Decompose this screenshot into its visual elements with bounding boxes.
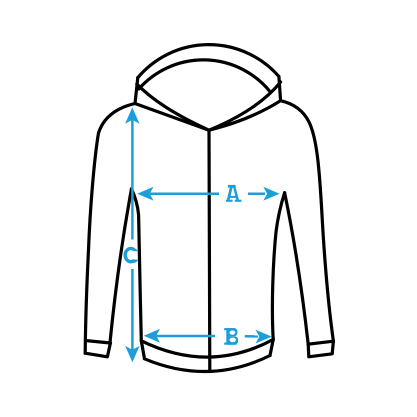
arrow B right head: [256, 330, 272, 344]
arrow B shaft left: [156, 335, 215, 338]
left body seam and hem left edge: [132, 189, 145, 359]
arrow C top head: [125, 107, 139, 123]
zipper: [207, 130, 211, 371]
label C: [125, 248, 138, 263]
right shoulder and sleeve outer edge: [281, 101, 334, 342]
hood inner arc: [139, 60, 271, 92]
arrow A shaft left: [150, 192, 219, 195]
hood right edge: [279, 77, 281, 101]
arrow C shaft upper: [131, 120, 134, 240]
left cuff: [85, 343, 110, 357]
right wrist line: [308, 341, 333, 344]
hood outer arc: [138, 45, 279, 78]
arrow C bottom head: [125, 346, 139, 362]
arrow A right head: [263, 187, 279, 201]
arrow B left head: [144, 329, 160, 343]
arrow B shaft right: [245, 335, 258, 338]
hood left edge: [135, 78, 138, 104]
arrow A left head: [137, 187, 153, 201]
left sleeve inner edge: [110, 189, 132, 343]
left wrist line: [86, 341, 110, 343]
hood left drape upper: [137, 84, 209, 130]
hood left drape lower: [135, 104, 209, 131]
hood right drape lower: [209, 101, 281, 131]
arrow C shaft lower: [131, 269, 134, 350]
hem right edge: [270, 340, 273, 356]
right body seam: [272, 193, 284, 340]
right sleeve inner edge: [285, 193, 309, 345]
hood right drape upper: [209, 82, 281, 130]
label B: [224, 328, 238, 345]
arrow A shaft right: [248, 192, 265, 195]
label A: [226, 185, 242, 202]
hem bottom curve: [145, 356, 271, 372]
hem top curve: [141, 340, 273, 358]
right cuff: [308, 341, 333, 357]
left shoulder and sleeve outer edge: [85, 104, 135, 354]
